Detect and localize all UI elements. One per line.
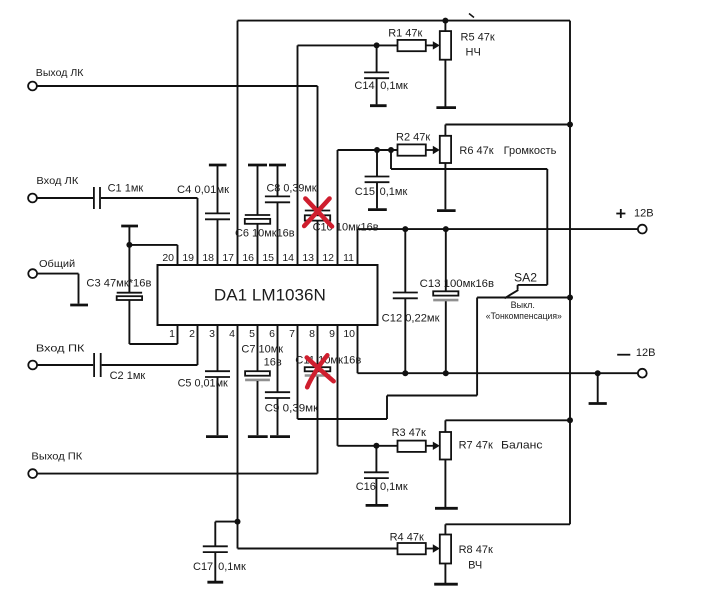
svg-text:C10 10мк16в: C10 10мк16в [313,222,379,234]
svg-text:Выкл.: Выкл. [511,300,535,310]
svg-text:DA1 LM1036N: DA1 LM1036N [214,286,326,305]
svg-text:12В: 12В [634,208,654,220]
svg-text:«Тонкомпенсация»: «Тонкомпенсация» [486,311,562,321]
svg-text:19: 19 [182,252,194,264]
svg-text:C6 10мк16в: C6 10мк16в [235,227,295,239]
svg-text:C8 0,39мк: C8 0,39мк [267,183,317,195]
svg-text:12: 12 [322,252,334,264]
svg-text:0,1мк: 0,1мк [380,481,408,493]
svg-text:7: 7 [289,328,295,340]
svg-text:C4 0,01мк: C4 0,01мк [177,184,229,196]
svg-text:20: 20 [162,252,174,264]
svg-text:15: 15 [262,252,274,264]
svg-text:3: 3 [209,328,215,340]
svg-text:C9 0,39мк: C9 0,39мк [265,403,319,415]
svg-text:16: 16 [242,252,254,264]
svg-text:18: 18 [202,252,214,264]
svg-text:11: 11 [343,252,354,264]
svg-text:C16: C16 [356,481,376,493]
svg-text:10: 10 [343,328,355,340]
svg-text:R1 47к: R1 47к [388,28,422,40]
svg-text:C14: C14 [354,80,374,92]
svg-text:ВЧ: ВЧ [468,559,482,571]
svg-text:R3 47к: R3 47к [392,427,426,439]
svg-text:SA2: SA2 [514,271,537,285]
svg-text:0,1мк: 0,1мк [218,561,246,573]
svg-text:1: 1 [169,328,175,340]
svg-text:14: 14 [282,252,294,264]
svg-text:Громкость: Громкость [504,145,557,157]
svg-text:НЧ: НЧ [466,47,481,59]
svg-text:R7 47к: R7 47к [459,440,493,452]
svg-text:R2 47к: R2 47к [396,132,430,144]
svg-text:8: 8 [309,328,315,340]
svg-text:Вход ЛК: Вход ЛК [36,175,79,187]
svg-text:C1 1мк: C1 1мк [108,182,144,194]
svg-text:Общий: Общий [39,258,75,270]
svg-text:C3 47мк*16в: C3 47мк*16в [86,278,151,290]
svg-text:C17: C17 [193,561,213,573]
svg-text:C12 0,22мк: C12 0,22мк [382,313,440,325]
svg-text:R5 47к: R5 47к [461,32,495,44]
svg-text:Выход ЛК: Выход ЛК [36,67,84,79]
svg-text:0,1мк: 0,1мк [380,80,408,92]
svg-text:C13 100мк16в: C13 100мк16в [420,278,494,290]
svg-text:R8 47к: R8 47к [459,544,493,556]
svg-text:16в: 16в [264,356,282,368]
svg-text:C2 1мк: C2 1мк [110,370,146,382]
svg-text:R4 47к: R4 47к [390,532,424,544]
svg-text:5: 5 [249,328,255,340]
svg-text:R6 47к: R6 47к [459,145,493,157]
svg-text:C5 0,01мк: C5 0,01мк [178,378,228,390]
svg-text:4: 4 [229,328,235,340]
svg-text:Выход ПК: Выход ПК [31,450,83,462]
svg-text:6: 6 [269,328,275,340]
svg-text:13: 13 [302,252,314,264]
svg-text:17: 17 [222,252,234,264]
svg-text:9: 9 [329,328,335,340]
svg-text:12В: 12В [636,347,656,359]
svg-text:Вход ПК: Вход ПК [36,343,86,355]
svg-text:C15: C15 [355,186,375,198]
svg-text:2: 2 [189,328,195,340]
svg-text:Баланс: Баланс [501,440,543,452]
svg-text:0,1мк: 0,1мк [380,186,408,198]
